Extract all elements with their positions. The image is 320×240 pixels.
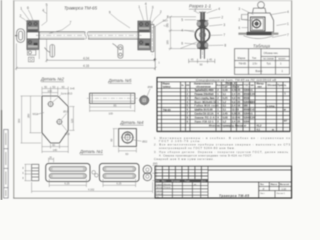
- svg-text:Разраб.: Разраб.: [155, 184, 163, 186]
- svg-text:Ст3: Ст3: [250, 109, 255, 112]
- designation band: [208, 170, 292, 182]
- bracket top step: [253, 8, 267, 13]
- svg-text:травер.: травер.: [163, 86, 172, 88]
- svg-text:Кол.: Кол.: [217, 85, 222, 87]
- left stack end view: [32, 164, 39, 180]
- svg-text:1: 1: [138, 5, 140, 9]
- svg-text:5264: 5264: [244, 89, 250, 92]
- svg-text:1: 1: [195, 8, 197, 12]
- beam break squiggle: [85, 31, 88, 39]
- svg-text:4: 4: [218, 7, 220, 11]
- svg-text:4,9: 4,9: [232, 97, 236, 100]
- svg-text:100: 100: [48, 89, 53, 93]
- left clamp bolts below: [27, 50, 35, 55]
- joint mid: [92, 171, 98, 178]
- svg-text:Листов 1: Листов 1: [276, 193, 285, 195]
- svg-text:2: 2: [221, 15, 223, 19]
- svg-text:Траверса ТМ-65: Траверса ТМ-65: [64, 6, 97, 11]
- svg-text:6: 6: [181, 41, 183, 45]
- left leaders: [242, 9, 254, 28]
- beam tube: [39, 32, 139, 39]
- top small dim: [49, 158, 54, 163]
- right end view circles: [143, 165, 152, 174]
- svg-text:6: 6: [238, 26, 240, 30]
- small nut below left clamp: [28, 57, 34, 62]
- svg-text:Ø45: Ø45: [153, 164, 158, 166]
- svg-text:3: 3: [238, 7, 240, 11]
- svg-text:Лит.: Лит.: [260, 184, 265, 186]
- detail1 placeholder: [22, 149, 158, 193]
- svg-text:Лист: Лист: [260, 193, 265, 195]
- lower ball cluster: [197, 41, 209, 50]
- overall dim: [32, 182, 153, 193]
- middle ring: [195, 28, 209, 42]
- MAIN VIEW group placeholder: [15, 2, 169, 70]
- svg-text:45: 45: [191, 58, 195, 62]
- svg-text:Разрез 1-1: Разрез 1-1: [189, 4, 211, 9]
- svg-text:п/п: п/п: [186, 85, 190, 87]
- beam centerline: [36, 34, 142, 36]
- svg-text:1,2: 1,2: [223, 120, 227, 123]
- svg-text:3: 3: [223, 23, 225, 27]
- svg-text:Н.контр.: Н.контр.: [155, 194, 163, 196]
- svg-text:45: 45: [209, 58, 213, 62]
- svg-text:0,08: 0,08: [223, 116, 228, 119]
- slot dims: [49, 179, 135, 187]
- svg-text:7: 7: [287, 33, 289, 37]
- svg-text:5264: 5264: [244, 120, 250, 123]
- svg-text:Труба 60х3,5 L=4000: Труба 60х3,5 L=4000: [195, 89, 215, 92]
- right leader: [133, 140, 142, 141]
- right callouts: [208, 17, 224, 45]
- svg-text:3,1: 3,1: [223, 109, 227, 112]
- plate 2: [99, 163, 139, 181]
- svg-text:Тр1: Тр1: [267, 62, 272, 66]
- plate 1: [46, 163, 90, 181]
- svg-text:по схеме: по схеме: [263, 57, 274, 60]
- svg-text:350: 350: [17, 118, 21, 123]
- svg-text:4,9: 4,9: [232, 101, 236, 104]
- svg-text:Прим: Прим: [277, 85, 283, 87]
- left grid lower: [155, 166, 208, 198]
- end view circle: [140, 96, 149, 105]
- scan edge dark strip: [1, 0, 2, 110]
- svg-text:Масштаб: Масштаб: [280, 183, 290, 186]
- svg-text:Ø22: Ø22: [142, 139, 148, 143]
- name cell divider: [258, 182, 260, 198]
- vertical dim left of section: [169, 16, 196, 51]
- left callouts: [181, 11, 200, 49]
- left clamp upper block: [27, 21, 39, 32]
- left clamp lower block: [27, 39, 39, 50]
- inner square outer: [250, 17, 265, 31]
- holes: [48, 102, 53, 107]
- top circle knob: [258, 2, 265, 9]
- svg-text:Утв.: Утв.: [155, 197, 159, 199]
- svg-text:2,4: 2,4: [232, 105, 236, 108]
- svg-text:4: 4: [42, 8, 44, 12]
- svg-text:2: 2: [238, 18, 240, 22]
- svg-text:м: м: [272, 128, 274, 131]
- right clamp lower block: [138, 39, 151, 50]
- svg-text:Спецификация на 1шт. ТМ-65 на: Спецификация на 1шт. ТМ-65 на ПС 110/35/…: [196, 78, 276, 82]
- right clamp upper block: [138, 21, 151, 32]
- small table placeholder: [235, 43, 290, 74]
- bolt circles: [253, 20, 261, 28]
- left clamp mid band: [27, 32, 39, 39]
- right end bar: [151, 24, 154, 51]
- bottom dim: [119, 147, 137, 152]
- svg-text:№: №: [284, 84, 287, 87]
- detail4 placeholder: [109, 120, 147, 156]
- svg-text:колич: колич: [279, 57, 287, 60]
- svg-text:Деталь №5: Деталь №5: [108, 78, 133, 83]
- svg-text:4: 4: [181, 28, 183, 32]
- hole leaders: [52, 95, 60, 102]
- svg-text:Петров: Петров: [164, 187, 172, 189]
- svg-text:120: 120: [70, 118, 74, 123]
- svg-text:Деталь №4: Деталь №4: [120, 120, 145, 125]
- central dark bar: [200, 12, 205, 50]
- svg-text:ТМ-65: ТМ-65: [239, 62, 247, 66]
- notes text block: [154, 136, 291, 161]
- svg-text:280: 280: [26, 113, 30, 118]
- svg-text:4: 4: [287, 10, 289, 14]
- svg-text:0,08: 0,08: [223, 89, 228, 92]
- svg-text:5: 5: [181, 18, 183, 22]
- frame bottom: [13, 197, 292, 200]
- BRACKET view placeholder: [238, 2, 289, 39]
- svg-text:электросваркой по ГОСТ 5264-80: электросваркой по ГОСТ 5264-80 шов 6мм.: [159, 146, 235, 150]
- svg-text:4.04: 4.04: [83, 56, 89, 60]
- svg-text:5264: 5264: [244, 113, 250, 116]
- svg-text:2,5т: 2,5т: [253, 62, 259, 66]
- plate outline: [42, 96, 68, 143]
- svg-text:Траверса ТМ-65: Траверса ТМ-65: [219, 194, 249, 198]
- svg-text:Ø13: Ø13: [65, 132, 70, 136]
- svg-text:Болт М16х60.58: Болт М16х60.58: [195, 101, 218, 104]
- svg-text:0,0254: 0,0254: [267, 106, 275, 109]
- frame top: [13, 0, 292, 2]
- small part P1 under clamp: [45, 45, 55, 58]
- svg-text:2,45: 2,45: [223, 113, 228, 116]
- svg-text:Провер.: Провер.: [155, 187, 163, 189]
- izm dark header row: [155, 179, 208, 182]
- svg-text:1:10: 1:10: [281, 188, 286, 191]
- svg-text:100: 100: [109, 112, 114, 116]
- svg-text:Таблица: Таблица: [253, 43, 271, 48]
- svg-text:9: 9: [109, 10, 111, 14]
- svg-text:41,2: 41,2: [257, 125, 262, 128]
- svg-text:С24: С24: [250, 116, 255, 119]
- svg-text:Ø48: Ø48: [148, 85, 154, 89]
- under arc: [244, 36, 274, 39]
- left stack dims: [25, 164, 32, 180]
- left shackle pin: [15, 35, 18, 37]
- svg-text:4,1: 4,1: [257, 128, 261, 131]
- svg-text:2отв Ø13: 2отв Ø13: [61, 92, 73, 96]
- svg-text:Лист струбц. 8мм: Лист струбц. 8мм: [195, 97, 215, 100]
- svg-text:Масса: Масса: [271, 184, 278, 186]
- frame left: [12, 0, 15, 199]
- svg-text:8509: 8509: [244, 93, 250, 96]
- left margin box column: [4, 130, 9, 199]
- svg-text:тип: тип: [250, 85, 255, 87]
- svg-text:6.25: 6.25: [65, 183, 70, 186]
- svg-text:2,4: 2,4: [232, 120, 236, 123]
- square plate: [119, 129, 137, 147]
- svg-text:4. Сварка производится электро: 4. Сварка производится электродами типа …: [159, 153, 252, 157]
- sleeve body: [90, 93, 135, 103]
- svg-text:Деталь №2: Деталь №2: [40, 76, 65, 81]
- svg-text:Обозна-чен.: Обозна-чен.: [264, 51, 279, 55]
- svg-text:Обознач.: Обознач.: [267, 84, 278, 87]
- revision grid upper: [155, 166, 208, 179]
- svg-text:1: 1: [20, 6, 22, 10]
- svg-text:185: 185: [166, 40, 170, 45]
- right clamp mid band: [138, 32, 151, 39]
- svg-text:Планка 150х60х8: Планка 150х60х8: [195, 93, 215, 96]
- right leaders: [270, 12, 287, 38]
- svg-text:7: 7: [223, 33, 225, 37]
- spec table placeholder: [157, 78, 290, 132]
- top stem: [199, 11, 206, 13]
- detail5 placeholder: [87, 78, 153, 116]
- dim line A: [45, 59, 156, 62]
- svg-text:Иванов: Иванов: [164, 184, 172, 186]
- svg-text:3,1: 3,1: [223, 105, 227, 108]
- svg-text:кг: кг: [284, 109, 286, 112]
- upper ball cluster: [197, 19, 209, 28]
- svg-text:140: 140: [53, 148, 58, 152]
- svg-text:Ушко У1К-12-1: Ушко У1К-12-1: [195, 120, 215, 123]
- svg-text:иал: иал: [258, 86, 263, 88]
- svg-text:2шт: 2шт: [163, 19, 169, 23]
- svg-text:3: 3: [152, 6, 154, 10]
- svg-text:Гайка М16 гост: Гайка М16 гост: [195, 105, 219, 108]
- svg-text:Наименование и: Наименование и: [194, 84, 213, 86]
- svg-text:2: 2: [20, 14, 22, 18]
- svg-text:8509: 8509: [244, 109, 250, 112]
- svg-text:7: 7: [70, 20, 72, 24]
- top right callout of section: [207, 9, 218, 13]
- paper background: [0, 0, 300, 200]
- svg-text:0,25: 0,25: [223, 97, 228, 100]
- left dim: [113, 129, 118, 147]
- svg-text:Деталь №1: Деталь №1: [79, 149, 103, 154]
- svg-text:С24: С24: [250, 93, 255, 96]
- svg-text:3,1: 3,1: [223, 93, 227, 96]
- svg-text:Итого на 1 траверсу. Масса, кг: Итого на 1 траверсу. Масса, кг: [209, 125, 246, 128]
- svg-text:380: 380: [244, 105, 249, 108]
- left margin rotated text marks: [5, 133, 6, 196]
- svg-text:6.25: 6.25: [117, 183, 122, 186]
- callouts right top: [111, 6, 168, 29]
- svg-text:2,4: 2,4: [232, 93, 236, 96]
- dim extension lines: [16, 40, 46, 71]
- frame right: [290, 0, 293, 199]
- svg-text:Тип: Тип: [252, 56, 257, 60]
- svg-text:5264: 5264: [244, 101, 250, 104]
- svg-text:Зажим ПС-2-А: Зажим ПС-2-А: [195, 116, 215, 119]
- left tab: [242, 15, 249, 20]
- svg-text:Матер-: Матер-: [257, 84, 265, 86]
- svg-text:1: 1: [287, 22, 289, 26]
- svg-text:2: 2: [160, 10, 162, 14]
- svg-text:Марка: Марка: [163, 84, 171, 86]
- left shackle: [17, 29, 25, 43]
- right side dim of plate: [61, 107, 75, 132]
- title block outer: [155, 166, 292, 198]
- beam inner lines: [39, 33, 139, 35]
- svg-text:5264: 5264: [244, 116, 250, 119]
- titleblock placeholder: [155, 166, 292, 198]
- small part P2 under beam right-center: [113, 44, 124, 59]
- centerline: [202, 11, 204, 59]
- specification table outer: [157, 78, 290, 132]
- svg-text:ТМ-65: ТМ-65: [163, 108, 171, 112]
- SECTION 1-1 group placeholder: [166, 4, 227, 67]
- right info grid: [259, 182, 292, 198]
- callouts left top: [21, 6, 71, 33]
- svg-text:№: №: [181, 84, 184, 87]
- svg-text:Всего: Всего: [256, 69, 263, 73]
- svg-text:2. Все металлические приборы с: 2. Все металлические приборы стальные св…: [154, 142, 290, 146]
- svg-text:5: 5: [46, 3, 48, 7]
- inner square inner: [252, 18, 263, 29]
- svg-text:Т.контр.: Т.контр.: [155, 190, 163, 192]
- dims below sleeve: [90, 105, 135, 113]
- svg-text:обозначение: обозначение: [196, 85, 211, 88]
- svg-text:Скоба СК-12.1А: Скоба СК-12.1А: [195, 113, 214, 116]
- svg-text:6: 6: [27, 6, 29, 10]
- detail2 placeholder: [17, 76, 75, 153]
- svg-text:4.16: 4.16: [83, 64, 89, 68]
- notes placeholder: [154, 136, 291, 161]
- svg-text:Масса, кг: Масса, кг: [226, 83, 237, 85]
- svg-text:Марка: Марка: [238, 56, 246, 60]
- svg-text:4.162: 4.162: [88, 188, 95, 191]
- svg-text:90: 90: [200, 63, 204, 67]
- svg-text:4: 4: [145, 2, 147, 6]
- left dims: [21, 96, 41, 143]
- svg-text:δ=8: δ=8: [70, 86, 75, 90]
- svg-text:1,2: 1,2: [223, 101, 227, 104]
- bottom dim: [189, 59, 215, 63]
- svg-text:140: 140: [166, 23, 170, 28]
- base bar: [246, 32, 271, 35]
- svg-text:8509: 8509: [244, 97, 250, 100]
- svg-text:ГОСТ 2.105-79 узлы.: ГОСТ 2.105-79 узлы.: [159, 139, 201, 143]
- svg-text:8: 8: [224, 43, 226, 47]
- svg-text:Ø13: Ø13: [63, 110, 69, 114]
- bottom dims: [42, 131, 68, 153]
- svg-text:Шайба 16.01.08: Шайба 16.01.08: [195, 109, 214, 112]
- dim line B overall: [15, 67, 157, 70]
- top dims: [42, 87, 68, 106]
- right dims: [152, 166, 157, 181]
- svg-text:Сварной шов 6 мм сумм катетами: Сварной шов 6 мм сумм катетами.: [154, 157, 214, 161]
- bracket body: [248, 13, 274, 32]
